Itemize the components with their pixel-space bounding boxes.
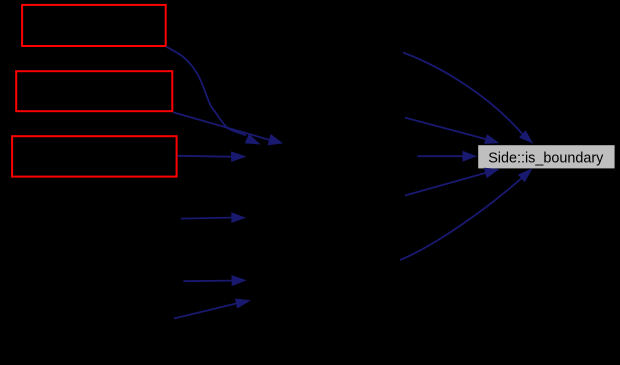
edge k: curve from hidden middle node to Side::is_boundary (bottom) [400, 168, 532, 260]
edge h: line from hidden middle node to Side::is_boundary (upper-left) [405, 118, 499, 144]
node Side::is_boundary (current node, grey) [478, 145, 614, 168]
node box R1 (red truncated caller node, top-left) [22, 5, 166, 46]
edge g: big curve from hidden middle node to Side::is_boundary (top) [403, 53, 533, 144]
edge c: arrow from R3 to hidden middle node [178, 151, 247, 162]
edge e: arrow from hidden left node to hidden middle node [183, 275, 246, 286]
edge b: line from R2 to hidden middle node [173, 112, 283, 145]
edge a: curve from R1 to hidden middle node [166, 47, 261, 145]
node box R2 (red truncated caller node, middle-left) [16, 71, 172, 111]
svg-text:Side::is_boundary: Side::is_boundary [488, 149, 604, 166]
edge d: arrow from hidden left node to hidden middle node [181, 212, 246, 223]
edge j: line from hidden middle node to Side::is_boundary (lower-left) [405, 168, 500, 196]
edge i: horizontal arrow from hidden middle node to Side::is_boundary (left) [417, 151, 477, 162]
edge f: diagonal arrow from hidden left node to hidden middle node [174, 299, 251, 319]
node box R3 (red truncated caller node, lower-left) [12, 136, 177, 176]
